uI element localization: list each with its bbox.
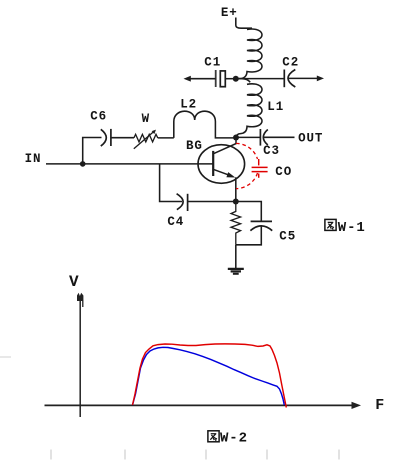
svg-text:L1: L1 [267, 100, 284, 114]
wire node T to C1 [225, 78, 236, 80]
inductor L1 upper winding [236, 29, 262, 79]
capacitor C5 curved plate [250, 226, 272, 231]
node IN junction dot [80, 161, 86, 167]
faint table border ticks bottom [51, 450, 339, 460]
wire C1 to left arrow [191, 78, 216, 80]
transistor BG emitter with arrow [213, 169, 231, 176]
resistor W zigzag [134, 134, 158, 142]
wire IN to base [46, 163, 213, 165]
wire node C to C3 [236, 136, 260, 138]
graph y-axis with arrow [79, 297, 81, 417]
wire W to L2 [158, 137, 174, 139]
wire C4 to node E [188, 201, 236, 203]
capacitor C4 line plate [187, 194, 189, 211]
wire C6 to W [111, 137, 134, 139]
svg-text:C4: C4 [167, 215, 184, 229]
wire junction up to C6 branch [83, 138, 102, 164]
capacitor C1 rectangle plate [220, 71, 225, 87]
red dashed arc CO upper [236, 143, 258, 159]
label 图W-1 (figure W-1) [325, 219, 336, 230]
svg-text:OUT: OUT [298, 132, 323, 146]
wire C4 branch down [160, 164, 182, 202]
wire emitter to node E [235, 177, 237, 201]
svg-text:W-2: W-2 [220, 430, 248, 446]
wire node E to C5 [236, 202, 261, 221]
node T junction dot (tap) [233, 76, 239, 82]
capacitor C3 curved plate [263, 130, 268, 146]
red response curve [133, 344, 287, 408]
blue response curve [133, 347, 285, 405]
label 图W-2 (figure W-2) [208, 431, 219, 442]
capacitor C1 line plate [215, 70, 217, 87]
capacitor CO red symbol [258, 159, 260, 165]
wire node T to C2 [238, 78, 284, 80]
svg-text:W-1: W-1 [338, 220, 366, 236]
capacitor C2 curved plate [288, 70, 295, 88]
red dashed arc CO lower [236, 173, 258, 189]
wire C3 to OUT [264, 136, 295, 138]
graph x-axis with arrow [45, 404, 354, 406]
capacitor C2 line plate [283, 70, 285, 88]
svg-text:BG: BG [186, 139, 203, 153]
node E junction dot [233, 199, 239, 205]
svg-text:C1: C1 [204, 55, 221, 69]
resistor W arrow [134, 131, 154, 148]
ground symbol [228, 268, 244, 270]
wire C2 to right arrow [289, 77, 319, 79]
svg-text:V: V [69, 273, 80, 291]
right arrow terminal [317, 76, 324, 82]
capacitor C5 line plate [251, 220, 272, 222]
svg-text:C5: C5 [279, 229, 296, 243]
wire to ground [235, 245, 237, 268]
capacitor C6 line plate [110, 129, 112, 146]
capacitor C3 line plate [259, 129, 261, 146]
svg-text:IN: IN [25, 152, 42, 166]
capacitor C6 curved plate [101, 129, 107, 146]
node C junction dot [233, 135, 239, 141]
svg-text:L2: L2 [180, 97, 197, 111]
resistor Re zigzag [231, 202, 241, 245]
svg-text:C6: C6 [90, 110, 107, 124]
transistor BG base bar [212, 151, 214, 176]
left arrow terminal [184, 76, 191, 82]
svg-text:W: W [142, 112, 150, 126]
svg-text:F: F [375, 397, 385, 414]
wire C5 bottom return [236, 226, 261, 245]
inductor L2 [174, 111, 236, 138]
svg-text:CO: CO [275, 165, 292, 179]
transistor BG collector [213, 138, 236, 154]
capacitor C4 curved plate [177, 194, 184, 210]
faint left edge mark [0, 356, 11, 358]
inductor L1 lower winding [236, 79, 262, 138]
transistor BG circle [198, 145, 245, 184]
wire E+ supply down to coil [236, 18, 252, 29]
svg-text:C2: C2 [282, 55, 299, 69]
svg-text:C3: C3 [263, 144, 280, 158]
